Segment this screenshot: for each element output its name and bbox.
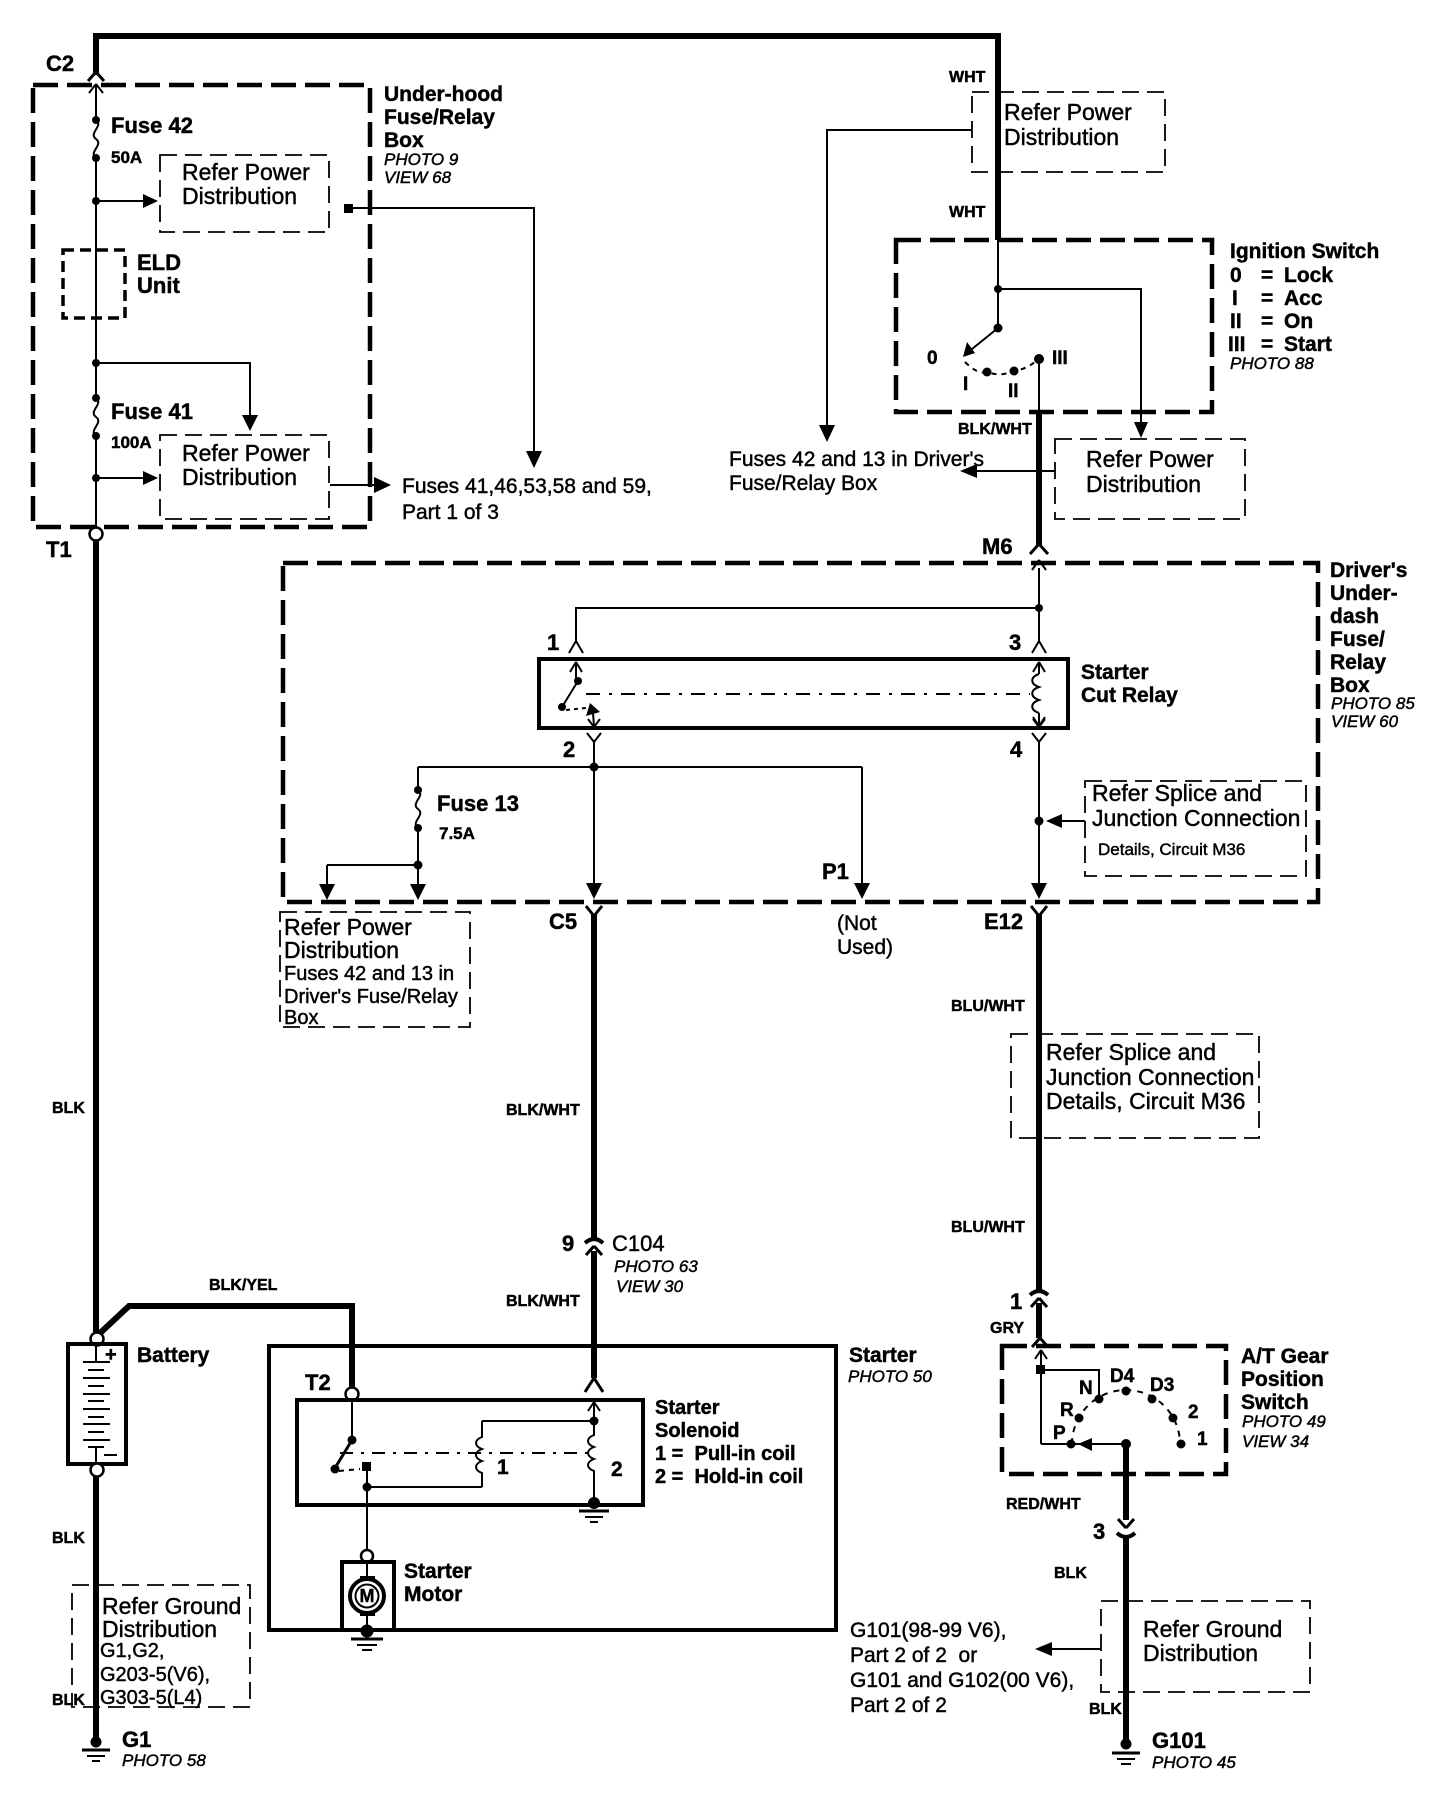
svg-text:0: 0 [927,348,938,369]
svg-text:PHOTO 49: PHOTO 49 [1242,1412,1326,1431]
svg-text:GRY: GRY [990,1320,1024,1337]
connector M6 (female half) [1030,544,1048,554]
svg-text:Starter: Starter [655,1397,720,1419]
label: Starter Motor [404,1560,472,1606]
refer ground distribution box 2 (dashed) [1101,1601,1310,1692]
contact position labels [927,348,1068,402]
svg-text:BLU/WHT: BLU/WHT [951,1219,1025,1236]
wire: RED/WHT output (thick) [1123,1444,1129,1520]
svg-text:2: 2 [563,737,575,762]
contact D4 [1122,1387,1131,1396]
svg-text:Driver's Fuse/Relay: Driver's Fuse/Relay [284,986,458,1008]
connector pin 3 (inline) [1093,1519,1135,1544]
svg-text:I: I [1232,287,1238,310]
note: Fuses 42 and 13 in Driver's Fuse/Relay Box [729,448,984,495]
svg-text:VIEW 60: VIEW 60 [1331,712,1399,731]
starter motor M [342,1562,394,1630]
ELD unit box (dashed) [63,250,125,318]
contact II [1010,367,1019,376]
svg-text:D4: D4 [1110,1366,1135,1387]
svg-text:1: 1 [1010,1289,1022,1314]
wire: battery negative BLK (thick) [93,1476,99,1741]
svg-text:3: 3 [1009,630,1021,655]
svg-text:PHOTO 85: PHOTO 85 [1331,694,1415,713]
svg-text:PHOTO 45: PHOTO 45 [1152,1753,1236,1772]
svg-text:Fuse/Relay: Fuse/Relay [384,106,495,129]
wire: C5 drop with exit arrow [593,767,595,886]
refer power distribution box B (dashed) [160,435,329,519]
wire: from box B right to Fuses 41 note [330,477,391,493]
svg-text:Switch: Switch [1241,1391,1309,1414]
svg-text:Fuses 42 and 13 in Driver's: Fuses 42 and 13 in Driver's [729,448,984,471]
starter solenoid box [297,1400,643,1505]
svg-text:100A: 100A [111,433,152,452]
svg-text:Fuse/Relay Box: Fuse/Relay Box [729,472,878,495]
label: Driver's Under-dash Fuse/Relay Box [1330,559,1415,731]
svg-text:Acc: Acc [1284,287,1323,310]
ignition switch wiper [963,324,1003,358]
wire: rail left and right [418,766,862,768]
svg-text:Refer Power: Refer Power [182,159,310,185]
connector at solenoid (male arrow) [588,1402,600,1421]
connector pin 1 (inline) [1010,1289,1048,1314]
wire: BLK/WHT C5 to C104 (thick) [591,915,597,1238]
node T2 terminal [305,1370,359,1401]
svg-text:Box: Box [384,129,424,152]
wire: WHT feed to ignition switch (thick) [995,92,1001,240]
coil 1 pull-in [476,1421,509,1487]
refer ground distribution box (dashed, left) [72,1585,250,1707]
fuse F13 [414,786,422,832]
label C104 PHOTO 63 VIEW 30 [612,1231,698,1296]
svg-text:E12: E12 [984,909,1023,934]
svg-text:Battery: Battery [137,1344,210,1367]
fuse F41 [92,394,100,440]
svg-text:Box: Box [284,1007,318,1029]
solenoid internal link (dash-dot) [340,1452,590,1454]
svg-text:Used): Used) [837,936,893,959]
svg-text:=: = [1261,264,1273,287]
svg-text:P: P [1053,1423,1066,1444]
refer splice box (inside under-dash, dashed) [1085,781,1306,876]
svg-text:T2: T2 [305,1370,331,1395]
wire: branch to contact N [1041,1370,1099,1399]
relay pin 3 connector [1009,630,1046,674]
wire: link from box A right to down arrow [344,204,542,468]
label: Ignition Switch legend [1228,240,1379,373]
battery symbol [68,1344,126,1464]
wire: link to refer power distribution D [998,289,1141,426]
svg-text:Cut Relay: Cut Relay [1081,684,1178,707]
wire: arrow down to refer power note (right) [417,865,419,887]
ground at solenoid [579,1497,609,1522]
connector at solenoid (female half) [585,1378,603,1392]
svg-text:VIEW 34: VIEW 34 [1242,1432,1309,1451]
svg-text:PHOTO 88: PHOTO 88 [1230,354,1314,373]
refer power distribution box C (dashed) [972,92,1165,172]
svg-text:Unit: Unit [137,273,180,298]
refer splice box 2 (dashed) [1011,1034,1259,1138]
ignition switch box (dashed) [896,240,1212,412]
svg-text:9: 9 [562,1231,574,1256]
connector C2 (male arrow) [89,84,103,93]
svg-text:P1: P1 [822,859,849,884]
svg-text:D3: D3 [1150,1375,1174,1396]
svg-text:Fuse 41: Fuse 41 [111,399,193,424]
svg-text:R: R [1060,1400,1074,1421]
label: A/T Gear Position Switch [1241,1345,1329,1451]
connector at A/T switch (male arrow) [1035,1350,1047,1359]
connector C2 (female half) [88,72,104,81]
svg-text:Details, Circuit M36: Details, Circuit M36 [1046,1088,1245,1114]
svg-text:Under-: Under- [1330,582,1398,605]
node: motor terminal [361,1550,373,1562]
wire: link from box C left to Fuses 42 and 13 note [827,130,972,429]
connector E12 (female half below box) [984,906,1047,934]
svg-text:BLK: BLK [1054,1565,1087,1582]
svg-text:Solenoid: Solenoid [655,1420,739,1442]
svg-text:Part 2 of 2 or: Part 2 of 2 or [850,1644,977,1667]
svg-text:VIEW 68: VIEW 68 [384,168,452,187]
svg-text:Details, Circuit M36: Details, Circuit M36 [1098,840,1245,859]
svg-text:3: 3 [1093,1519,1105,1544]
node: splice junction M36 [1035,817,1044,826]
node: feed junction to relay pin 1 [1035,604,1043,612]
svg-text:Under-hood: Under-hood [384,83,503,106]
label: Starter Cut Relay [1081,661,1178,707]
svg-text:G101: G101 [1152,1728,1206,1753]
svg-text:2: 2 [1188,1402,1199,1423]
svg-text:2: 2 [611,1458,623,1481]
ground G1 [82,1737,110,1762]
svg-text:Ignition Switch: Ignition Switch [1230,240,1379,263]
svg-text:Part 2 of 2: Part 2 of 2 [850,1694,947,1717]
wire: ignition input drop [997,240,999,328]
starter cut relay U1 box [539,659,1068,728]
wire: pin 4 to E12 [1038,748,1040,886]
connector at A/T switch (female half) [1032,1338,1048,1347]
svg-text:Fuse/: Fuse/ [1330,628,1385,651]
connector C5 (female half below box) [549,906,602,934]
svg-text:1 = Pull-in coil: 1 = Pull-in coil [655,1443,796,1465]
svg-text:RED/WHT: RED/WHT [1006,1496,1081,1513]
svg-text:Distribution: Distribution [182,183,297,209]
node: motor feed junction [363,1483,372,1492]
contact P [1067,1440,1076,1449]
svg-text:Refer Splice and: Refer Splice and [1092,780,1262,806]
svg-text:C104: C104 [612,1231,665,1256]
svg-text:ELD: ELD [137,250,181,275]
svg-text:G1,G2,: G1,G2, [100,1640,164,1662]
refer power distribution box D (dashed) [1055,439,1245,519]
svg-text:C2: C2 [46,51,74,76]
svg-text:Start: Start [1284,333,1332,356]
wire: arrow to refer power distribution A [92,194,158,208]
svg-text:Distribution: Distribution [284,937,399,963]
svg-text:G203-5(V6),: G203-5(V6), [100,1664,210,1686]
svg-text:1: 1 [497,1456,509,1479]
svg-text:WHT: WHT [949,204,986,221]
wire: P1 drop with exit arrow (not used) [861,767,863,886]
svg-text:(Not: (Not [837,912,877,935]
wire: branch to relay pin 1 [576,608,1039,641]
svg-text:Distribution: Distribution [1004,124,1119,150]
ground at starter motor [351,1625,383,1651]
relay pin 1 connector [547,630,583,678]
note: Fuses 41,46,53,58 and 59 Part 1 of 3 [402,475,652,524]
wire: arrow into refer power distribution B [92,471,158,485]
svg-text:BLK/WHT: BLK/WHT [506,1293,580,1310]
svg-text:BLK: BLK [52,1100,85,1117]
node T1 (terminal) [46,528,103,563]
node: fuse 13 tee junction [414,861,423,870]
svg-text:PHOTO 9: PHOTO 9 [384,150,459,169]
contact 2 [1169,1414,1178,1423]
wire: M6 feed inside box [1038,568,1040,641]
wire: top battery bus WHT (thick) [96,36,998,92]
svg-text:WHT: WHT [949,69,986,86]
wire: pin 2 to distribution rail [593,748,595,767]
svg-text:G101 and G102(00 V6),: G101 and G102(00 V6), [850,1669,1074,1692]
svg-text:1: 1 [547,630,559,655]
contact N [1095,1395,1104,1404]
svg-text:II: II [1008,381,1019,402]
wire: under-hood internal vertical [95,84,97,528]
svg-text:Distribution: Distribution [1143,1640,1258,1666]
svg-text:Starter: Starter [849,1344,917,1367]
A/T position labels [1053,1366,1208,1450]
svg-text:M6: M6 [982,534,1013,559]
connector M6 (male arrow) [1032,560,1046,570]
contact III [1034,354,1044,364]
wire: BLK/WHT C104 to starter solenoid (thick) [591,1251,597,1378]
wire: A/T input to wiper rail [1040,1350,1042,1444]
node battery - terminal [91,1464,104,1477]
svg-text:A/T Gear: A/T Gear [1241,1345,1329,1368]
svg-text:Starter: Starter [1081,661,1149,684]
svg-text:On: On [1284,310,1313,333]
svg-text:Fuse 42: Fuse 42 [111,113,193,138]
label G1 PHOTO 58 [122,1727,206,1770]
svg-text:0: 0 [1230,264,1242,287]
relay coil (pin3 to pin4) [1032,674,1045,726]
label: Starter PHOTO 50 [848,1344,932,1386]
svg-text:Junction Connection: Junction Connection [1046,1064,1254,1090]
node: ignition feed junction [994,285,1002,293]
svg-text:PHOTO 58: PHOTO 58 [122,1751,206,1770]
node: A/T feed square [1036,1365,1045,1374]
node: wiper output [1121,1439,1131,1449]
solenoid switch (T2 to contact) [331,1400,372,1474]
wire: BLK to G101 (thick) [1123,1535,1129,1742]
wire: BLK/WHT from ignition III (thin inside box) [1038,359,1040,414]
fuse F42 [92,116,100,162]
A/T gear position switch box (dashed) [1002,1346,1226,1474]
svg-text:Part 1 of 3: Part 1 of 3 [402,501,499,524]
wire: BLU/WHT E12 down (thick) [1036,915,1042,1290]
svg-text:Refer Power: Refer Power [1086,446,1214,472]
svg-text:Refer Splice and: Refer Splice and [1046,1039,1216,1065]
note: G101 ground distribution reference [850,1619,1074,1717]
wire: splice link with left arrow [1060,820,1085,822]
A/T contact arc (dashed) [1072,1390,1180,1444]
svg-text:Distribution: Distribution [1086,471,1201,497]
driver's under-dash fuse/relay box (dashed) [283,563,1318,902]
svg-text:VIEW 30: VIEW 30 [616,1277,684,1296]
node: coil 2 junction [590,1417,599,1426]
svg-text:Junction Connection: Junction Connection [1092,805,1300,831]
svg-text:BLK/WHT: BLK/WHT [506,1102,580,1119]
svg-text:1: 1 [1197,1429,1208,1450]
svg-text:BLK/YEL: BLK/YEL [209,1277,278,1294]
svg-text:BLU/WHT: BLU/WHT [951,998,1025,1015]
wire: BLK/WHT M6 drop (thick) [1036,412,1042,546]
wire: contact to coils junction [367,1470,482,1487]
svg-text:Distribution: Distribution [182,464,297,490]
svg-text:T1: T1 [46,537,72,562]
svg-text:C5: C5 [549,909,577,934]
svg-text:III: III [1052,348,1068,369]
svg-text:PHOTO 50: PHOTO 50 [848,1367,932,1386]
svg-text:Position: Position [1241,1368,1324,1391]
svg-text:Distribution: Distribution [102,1616,217,1642]
svg-text:=: = [1261,287,1273,310]
svg-text:Driver's: Driver's [1330,559,1407,582]
refer power distribution box A (dashed) [160,155,329,232]
label: Starter Solenoid legend [655,1397,803,1488]
svg-text:N: N [1079,1378,1093,1399]
wire: battery positive BLK (thick) [93,540,99,1338]
svg-text:dash: dash [1330,605,1379,628]
label ELD Unit [137,250,181,298]
ground G101 [1112,1739,1140,1765]
svg-text:Relay: Relay [1330,651,1386,674]
svg-text:III: III [1228,333,1246,356]
label Fuse 41 100A [111,399,193,452]
svg-text:II: II [1230,310,1242,333]
under-hood fuse/relay box (dashed) [33,85,370,527]
label: Under-hood Fuse/Relay Box [384,83,503,187]
wire: fuse 13 output tee [327,828,418,865]
svg-text:=: = [1261,333,1273,356]
wire: arrow down to refer power note (left) [326,865,328,887]
wire: wiper rail with arrow to P [1041,1438,1126,1451]
wire: solenoid to starter motor [366,1487,368,1550]
wire: left drop to fuse 13 [417,767,419,789]
label Fuse 13 7.5A [437,791,519,843]
contact D3 [1148,1395,1157,1404]
label (Not Used) [837,912,893,959]
node battery + terminal [91,1333,104,1346]
wire: link from box D left to note (arrow left) [972,470,1055,472]
svg-text:Fuses 42 and 13 in: Fuses 42 and 13 in [284,963,454,985]
node: rail junction [590,763,599,772]
svg-text:50A: 50A [111,148,142,167]
svg-text:BLK/WHT: BLK/WHT [958,421,1032,438]
relay pin 2 connector [563,719,601,762]
connector C104 pin 9 (inline) [562,1231,603,1256]
svg-text:PHOTO 63: PHOTO 63 [614,1257,698,1276]
svg-text:=: = [1261,310,1273,333]
wire: branch to refer power distribution B [92,359,258,431]
label Fuse 42 50A [111,113,193,167]
svg-text:Starter: Starter [404,1560,472,1583]
svg-text:BLK: BLK [52,1692,85,1709]
svg-text:Refer Power: Refer Power [182,440,310,466]
svg-text:Lock: Lock [1284,264,1333,287]
label G101 PHOTO 45 [1152,1728,1236,1772]
wire: arrow from refer ground box 2 to note [1048,1648,1101,1650]
svg-text:BLK: BLK [52,1530,85,1547]
contact I [983,368,992,377]
relay internal link (dash-dot) [586,693,1030,695]
wire: coil tops [482,1420,594,1422]
relay pin 4 connector [1010,719,1046,762]
wire: GRY to A/T switch (thick) [1036,1303,1042,1338]
svg-text:I: I [963,374,968,395]
svg-text:4: 4 [1010,737,1023,762]
svg-text:Refer Ground: Refer Ground [1143,1616,1282,1642]
svg-text:BLK: BLK [1089,1701,1122,1718]
contact 1 [1177,1440,1186,1449]
relay contact (pin1 to pin2, open) [558,677,600,726]
wire: BLK/YEL branch to starter T2 (thick) [98,1306,352,1390]
svg-text:Fuse 13: Fuse 13 [437,791,519,816]
ignition switch contact arc [965,361,1036,374]
svg-text:Fuses 41,46,53,58 and 59,: Fuses 41,46,53,58 and 59, [402,475,652,498]
starter assembly box [269,1346,836,1630]
svg-text:G1: G1 [122,1727,151,1752]
refer power distribution box E (dashed) [280,912,470,1027]
svg-text:G303-5(L4): G303-5(L4) [100,1687,202,1709]
svg-text:7.5A: 7.5A [439,824,475,843]
svg-text:2 = Hold-in coil: 2 = Hold-in coil [655,1466,803,1488]
svg-text:G101(98-99 V6),: G101(98-99 V6), [850,1619,1006,1642]
svg-text:Motor: Motor [404,1583,462,1606]
svg-text:Refer Power: Refer Power [1004,99,1132,125]
svg-text:M: M [360,1586,375,1606]
coil 2 hold-in [588,1421,623,1501]
contact R [1075,1414,1084,1423]
